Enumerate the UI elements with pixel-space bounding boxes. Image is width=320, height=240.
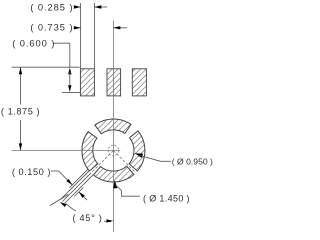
svg-text:( 0.150 ): ( 0.150 ) [12,167,51,177]
svg-text:( 0.600 ): ( 0.600 ) [12,38,55,48]
svg-text:( 45° ): ( 45° ) [72,213,102,223]
svg-text:( 1.875 ): ( 1.875 ) [1,107,40,117]
svg-text:( Ø 0.950 ): ( Ø 0.950 ) [172,157,213,167]
svg-text:( Ø 1.450 ): ( Ø 1.450 ) [143,194,190,204]
svg-text:( 0.735 ): ( 0.735 ) [30,22,73,32]
svg-text:( 0.285 ): ( 0.285 ) [30,2,73,12]
